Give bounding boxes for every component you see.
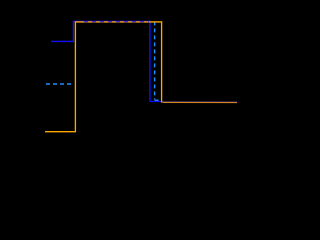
blue solid step curve (51, 21, 150, 101)
orange curve right tail (dim dashes mixing with blue) (163, 101, 238, 103)
blue curve right tail (dim, under orange) (162, 101, 237, 103)
blue plateau dither overlay (84, 21, 149, 23)
blue curve lower-right shelf (150, 101, 162, 103)
dashed light-blue step curve (46, 21, 161, 100)
orange solid step curve (45, 22, 162, 132)
